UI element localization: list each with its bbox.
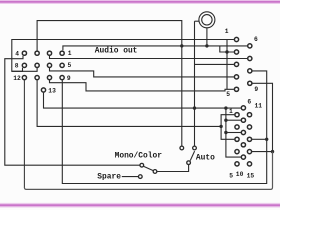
junction dot VGA bus p7 stub [224,119,227,122]
switch E vertical from RCA shield [194,21,196,146]
pin 12 [22,76,26,80]
svg-text:1: 1 [68,50,72,57]
pin 6 [248,44,252,48]
pin 4 [22,51,26,55]
tap to VGA pin 13 [252,138,267,140]
pin 1 [235,113,239,117]
pin 2 [234,50,238,54]
wire: DB9 pin 9 vsync to VGA pin 14 [252,83,272,151]
contact A [140,163,144,167]
pin 7 [35,63,39,67]
svg-text:Mono/Color: Mono/Color [115,151,163,160]
wire: DIN pin 2 to DB9 pin 7 [50,56,248,59]
pin 9 [60,76,64,80]
svg-text:1: 1 [229,108,233,115]
svg-text:13: 13 [48,87,56,94]
pin 11 [247,113,251,117]
junction dot vsync [271,150,274,153]
wire: pin8/pin7 lower link [12,68,37,71]
svg-text:1: 1 [225,28,229,35]
junction dot D audio [180,44,183,47]
wire: DIN pin 1 audio bus to DB9 pin 6 [63,46,247,50]
pin 1 [60,51,64,55]
contact B common [153,170,157,174]
spare wire [122,176,138,178]
svg-text:11: 11 [255,102,263,109]
wire: DIN pin 10 to DB9 pin 5 [50,80,234,91]
svg-text:Auto: Auto [196,153,215,162]
pin 10 [47,76,51,80]
svg-text:9: 9 [67,75,71,82]
junction dot DB9 bus [225,50,228,53]
svg-text:5: 5 [68,62,72,69]
svg-text:5: 5 [226,91,230,98]
pin 8 [22,63,26,67]
svg-text:9: 9 [254,86,258,93]
wire L: DIN pin 12 gray ground bus bottom [23,80,25,187]
wire B to C [157,165,188,172]
svg-text:6: 6 [247,98,251,105]
pin 4 [235,150,239,154]
pin 2 [235,125,239,129]
VGA bus vertical to pin 10 [226,108,241,157]
switch SW2 auto [180,146,196,164]
DB9 connector pins [234,37,252,91]
svg-text:6: 6 [254,36,258,43]
pin 13 [247,137,251,141]
pin 6 [241,106,245,110]
pin 5 [60,63,64,67]
pin 15 [247,162,251,166]
lever A-B [144,166,154,170]
wire: DIN pin 4 to switch A [5,56,140,165]
lever C-E [190,151,194,161]
pin 5 [234,87,238,91]
DIN-13 connector pin circles [22,51,64,92]
tap to VGA pin 14 [252,151,273,153]
DB9 bus vertical [226,40,228,90]
pin 8 [248,69,252,73]
pin 2 [47,51,51,55]
RCA jack audio out [195,12,215,46]
wire: DIN pin 8 riser and bus to DB9 pin 1 [12,40,234,72]
svg-text:8: 8 [15,63,19,70]
pin 7 [241,118,245,122]
pin 11 [35,76,39,80]
wire: bracket to VGA pins 1 and 3 [221,115,234,140]
wire: bus stub to VGA pin 8 [226,132,241,134]
pin 7 [248,56,252,60]
svg-text:10: 10 [236,171,244,178]
junction dot E on pin13 line [193,106,196,109]
wire: DIN pin 3 top bus to switch contact D [37,21,182,146]
wire: E tap to DB9 pin 3 [195,63,234,65]
svg-text:Audio out: Audio out [95,46,138,55]
pin 3 [234,62,238,66]
wire: DIN pin 6 to DB9 pin 4 [50,68,234,77]
VGA DE15 connector pins [235,106,252,166]
pin 9 [241,143,245,147]
wire RCA down [206,28,208,46]
wire: DIN pin 13 to VGA pin 6 [44,93,241,109]
pin 5 [235,162,239,166]
pin 10 [241,155,245,159]
junction dot VGA bus top [224,106,227,109]
pink top rule [0,0,280,4]
pin 14 [247,150,251,154]
pin 3 [235,137,239,141]
contact C common [187,161,191,165]
contact S spare [138,175,142,179]
svg-text:15: 15 [247,173,255,180]
contact E [193,146,197,150]
junction dot VGA bus p8 stub [224,131,227,134]
pin 13 [41,88,45,92]
pin 8 [241,130,245,134]
pin 4 [234,75,238,79]
svg-text:5: 5 [229,173,233,180]
junction dot RCA drop [205,44,208,47]
wire M: DIN pin 9 hsync down and right to DB9 p8 / VGA p13 [62,71,266,184]
pink bottom rule [0,203,280,208]
switch SW1 mono/color/spare [122,163,189,178]
svg-text:Spare: Spare [97,172,121,181]
wire: bus stub to VGA pin 7 [226,119,241,121]
pin 6 [47,63,51,67]
pin 1 [234,37,238,41]
pin 9 [248,81,252,85]
svg-text:4: 4 [15,51,19,58]
wire: audio tap down to DB9 pin 2 [220,46,234,52]
pin 12 [247,125,251,129]
wire RCA stub left [195,20,200,22]
pin 3 [35,51,39,55]
junction dot bracket p11 line [219,125,222,128]
svg-text:12: 12 [13,75,21,82]
contact D [180,146,184,150]
wire: DIN pin 11 to VGA bus [37,80,221,126]
junction dot hsync [265,138,268,141]
